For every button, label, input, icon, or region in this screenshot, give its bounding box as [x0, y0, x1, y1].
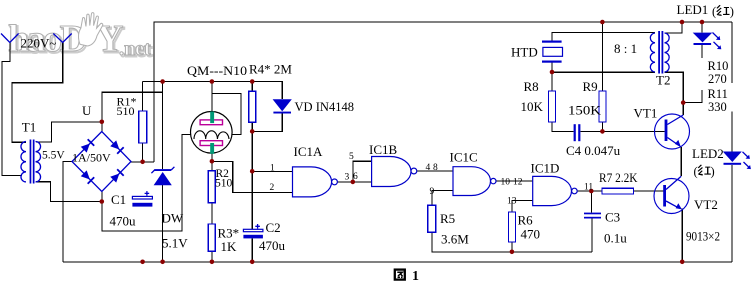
svg-text:0.1u: 0.1u [604, 231, 627, 246]
svg-text:T1: T1 [22, 120, 36, 135]
svg-text:R5: R5 [440, 211, 455, 226]
svg-text:C1: C1 [111, 192, 126, 207]
svg-text:C2: C2 [266, 220, 281, 235]
svg-text:VD IN4148: VD IN4148 [295, 99, 355, 114]
svg-text:1: 1 [412, 269, 419, 281]
svg-text:DW: DW [162, 211, 184, 226]
svg-text:330: 330 [708, 100, 727, 114]
svg-text:470u: 470u [110, 214, 137, 229]
svg-text:1A/50V: 1A/50V [72, 151, 111, 165]
svg-text:470u: 470u [259, 238, 286, 253]
svg-text:5: 5 [349, 152, 354, 162]
svg-text:C3: C3 [605, 210, 620, 225]
svg-text:510: 510 [117, 104, 135, 118]
svg-text:R9: R9 [583, 79, 598, 94]
svg-text:470: 470 [521, 227, 541, 242]
svg-text:11: 11 [584, 183, 593, 193]
svg-text:R6: R6 [518, 213, 534, 228]
svg-text:R7 2.2K: R7 2.2K [599, 170, 638, 185]
svg-text:8 : 1: 8 : 1 [614, 41, 637, 56]
svg-text:150K: 150K [568, 103, 602, 118]
svg-text:R8: R8 [524, 79, 539, 94]
svg-text:U: U [82, 103, 92, 118]
svg-text:HTD: HTD [511, 45, 538, 60]
svg-text:): ) [711, 165, 715, 179]
svg-text:4: 4 [426, 163, 431, 173]
svg-text:10K: 10K [521, 99, 544, 114]
svg-text:5.1V: 5.1V [162, 236, 188, 251]
svg-text:9: 9 [430, 187, 435, 197]
svg-text:VT1: VT1 [634, 106, 658, 121]
svg-text:(: ( [712, 5, 716, 19]
svg-text:1: 1 [270, 163, 275, 173]
svg-text:LED1: LED1 [677, 2, 709, 17]
svg-text:12: 12 [513, 178, 523, 188]
svg-text:QM---N10: QM---N10 [187, 63, 247, 78]
svg-text:): ) [730, 5, 734, 19]
svg-text:5.5V: 5.5V [42, 150, 65, 162]
svg-text:6: 6 [353, 172, 358, 182]
svg-text:C4 0.047u: C4 0.047u [566, 143, 621, 158]
svg-text:9013×2: 9013×2 [686, 229, 720, 244]
svg-text:LED2: LED2 [692, 146, 724, 161]
svg-text:510: 510 [215, 178, 233, 190]
svg-text:220V~: 220V~ [21, 36, 57, 51]
svg-text:1K: 1K [221, 239, 238, 254]
svg-text:(: ( [694, 165, 698, 179]
svg-text:2: 2 [270, 183, 275, 193]
svg-text:IC1A: IC1A [294, 144, 324, 159]
svg-text:IC1B: IC1B [369, 142, 398, 157]
svg-text:VT2: VT2 [694, 197, 718, 212]
svg-text:IC1C: IC1C [450, 150, 478, 165]
svg-text:8: 8 [433, 163, 438, 173]
svg-text:R10: R10 [708, 59, 729, 73]
svg-text:IC1D: IC1D [531, 161, 560, 176]
svg-text:3.6M: 3.6M [441, 232, 469, 247]
svg-text:R11: R11 [708, 87, 728, 101]
svg-text:3: 3 [345, 173, 350, 183]
svg-text:.net: .net [119, 38, 151, 60]
svg-text:R4* 2M: R4* 2M [249, 62, 292, 77]
svg-text:270: 270 [708, 72, 727, 86]
svg-text:10: 10 [501, 178, 511, 188]
svg-text:13: 13 [507, 197, 517, 207]
svg-text:T2: T2 [656, 73, 670, 88]
